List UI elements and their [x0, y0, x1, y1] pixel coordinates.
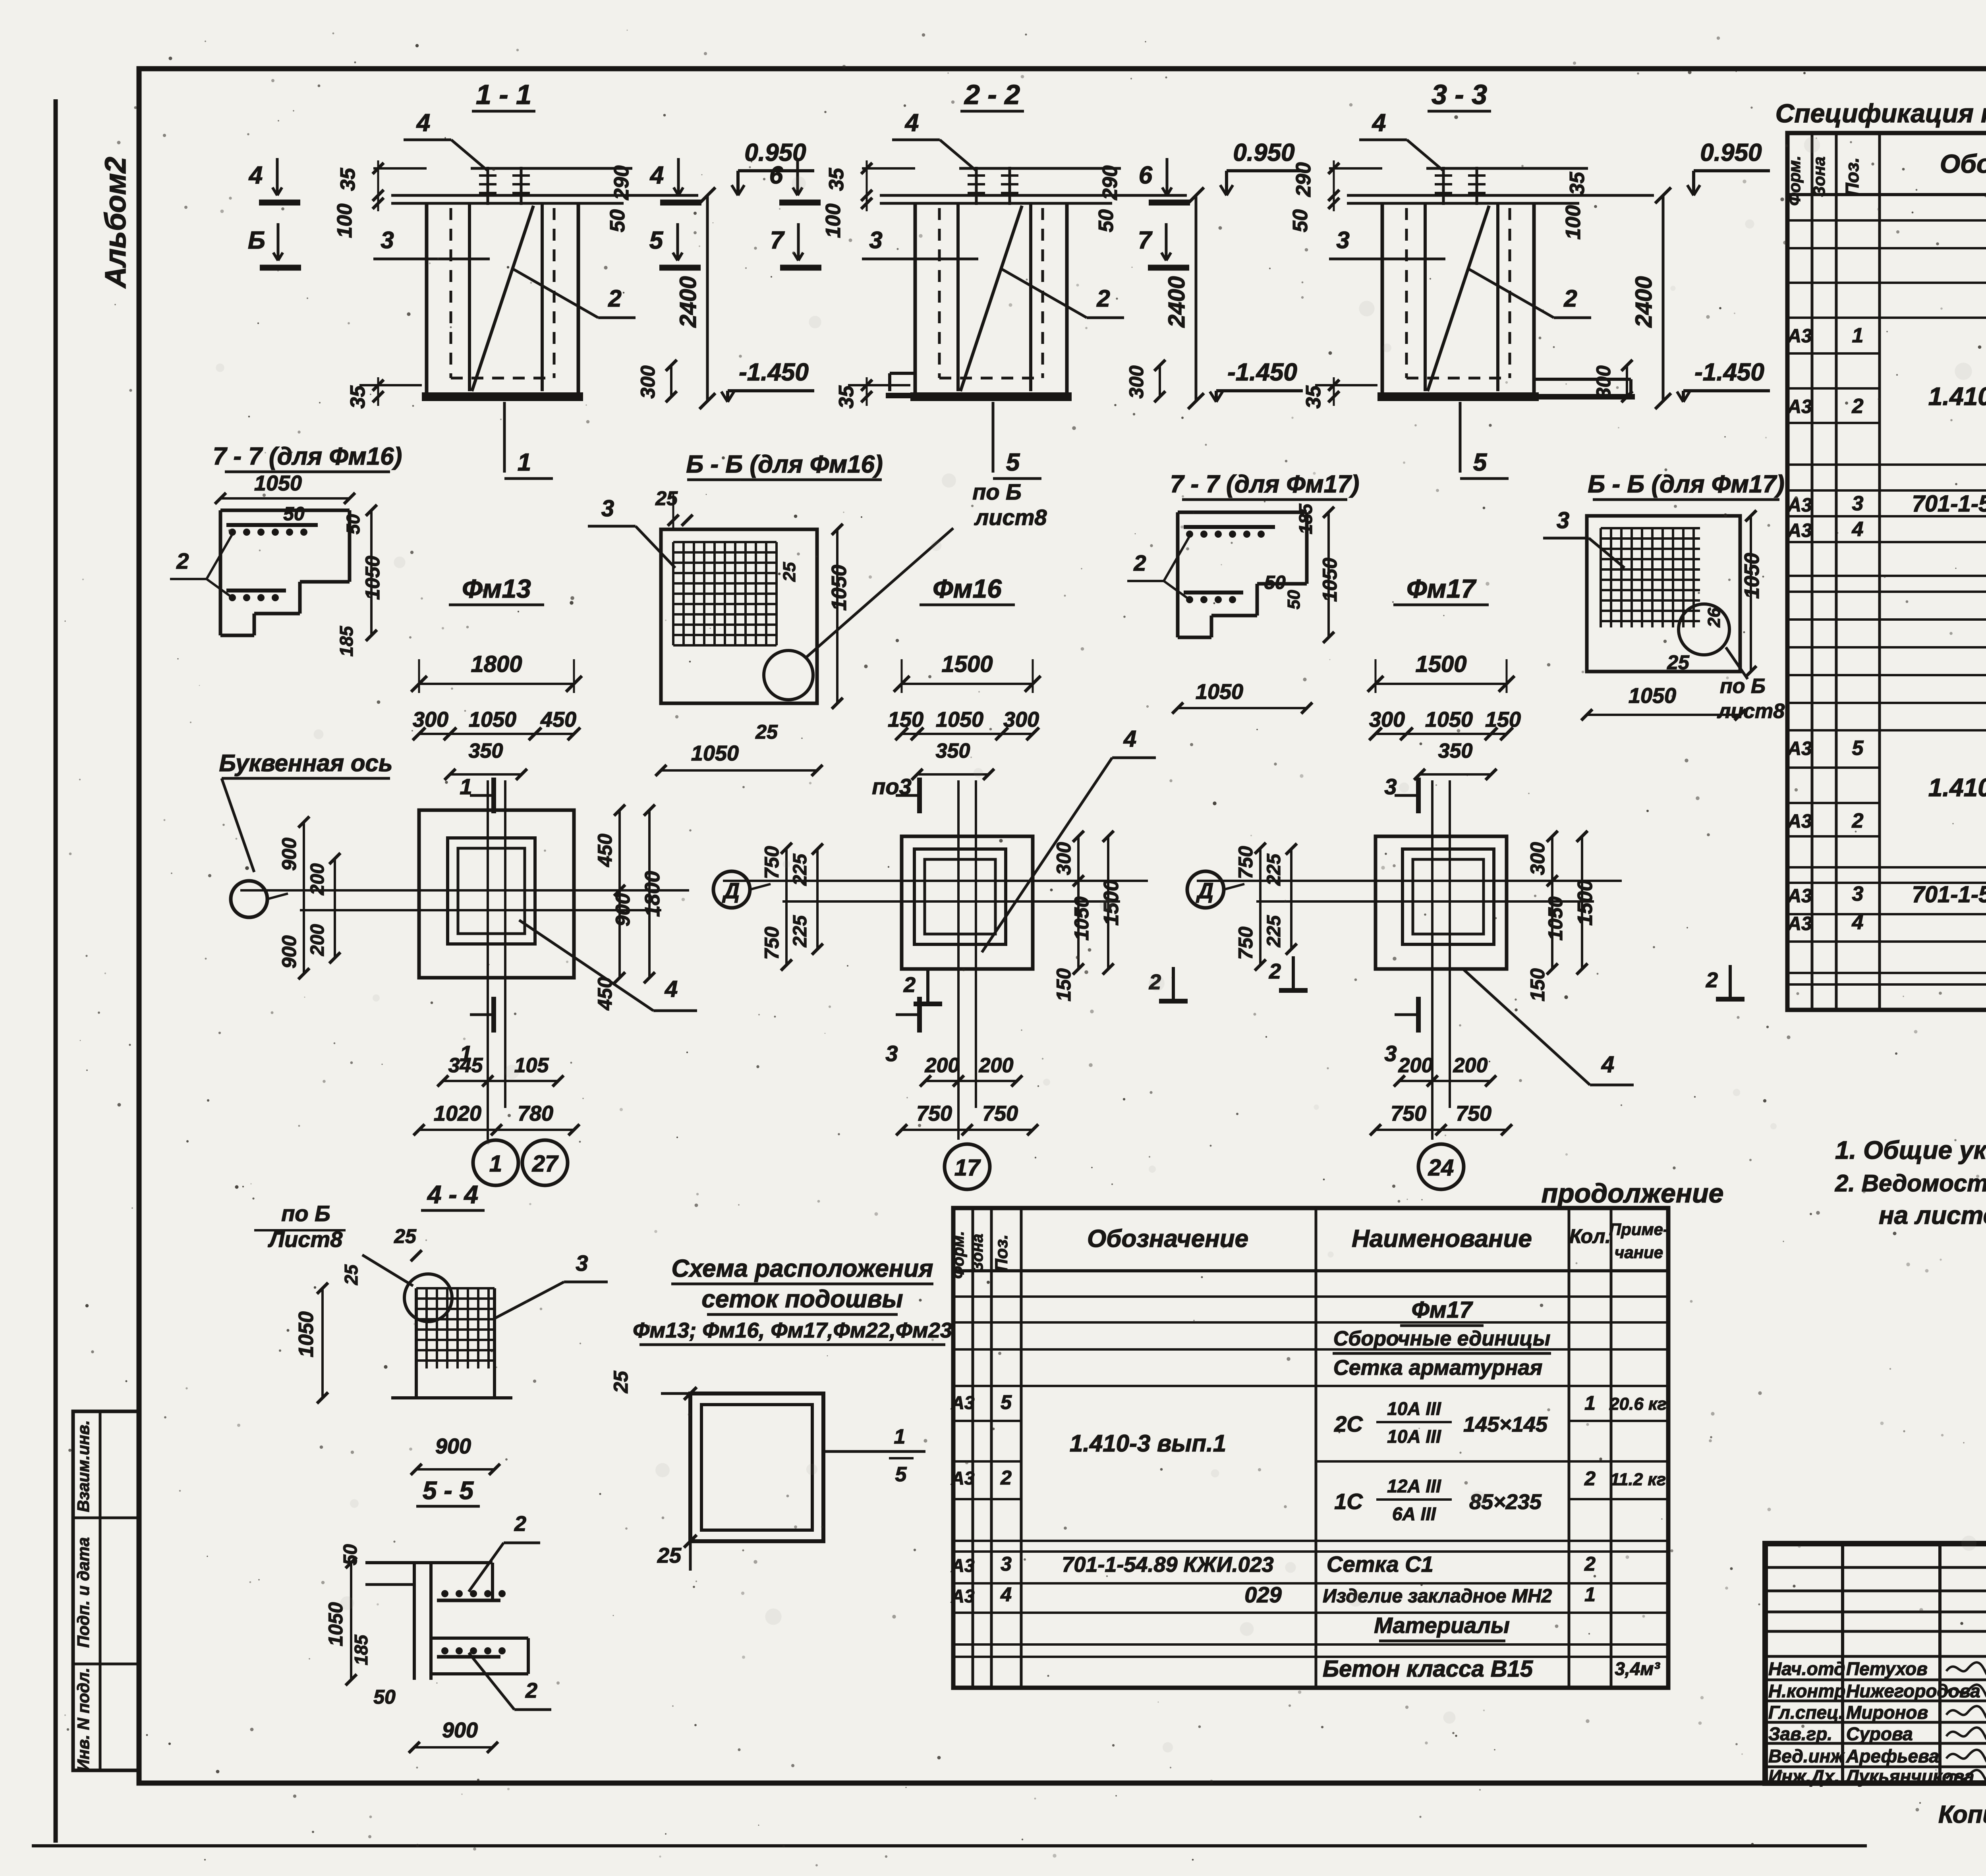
svg-text:7 - 7 (для Фм17): 7 - 7 (для Фм17) [1170, 471, 1359, 498]
svg-text:200: 200 [307, 924, 328, 956]
svg-text:50: 50 [1095, 209, 1118, 232]
svg-text:150: 150 [1053, 968, 1075, 1002]
svg-text:2: 2 [903, 973, 916, 997]
svg-text:Фм13; Фм16, Фм17,Фм22,Фм23: Фм13; Фм16, Фм17,Фм22,Фм23 [633, 1318, 952, 1342]
svg-text:1020: 1020 [434, 1102, 481, 1125]
svg-text:2: 2 [1133, 550, 1146, 575]
svg-text:Обозначение: Обозначение [1087, 1225, 1248, 1253]
svg-text:1800: 1800 [641, 871, 664, 917]
svg-text:Материалы: Материалы [1374, 1613, 1510, 1638]
svg-text:4: 4 [1123, 726, 1136, 752]
svg-text:200: 200 [1453, 1054, 1488, 1077]
svg-text:50: 50 [1284, 590, 1304, 609]
svg-text:Сурова: Сурова [1846, 1724, 1913, 1744]
svg-text:150: 150 [1526, 968, 1549, 1002]
svg-text:сеток подошвы: сеток подошвы [701, 1285, 903, 1313]
svg-text:А3: А3 [1787, 495, 1812, 516]
svg-text:А3: А3 [1787, 326, 1812, 347]
svg-text:Нижегородова: Нижегородова [1846, 1681, 1980, 1701]
svg-text:1С: 1С [1334, 1489, 1363, 1514]
svg-text:300: 300 [1003, 708, 1039, 731]
svg-text:3: 3 [1557, 508, 1569, 533]
svg-text:2400: 2400 [1631, 276, 1657, 328]
svg-text:-1.450: -1.450 [739, 359, 809, 386]
svg-text:4: 4 [649, 162, 664, 189]
svg-text:Взаим.инв.: Взаим.инв. [74, 1420, 93, 1512]
svg-text:1.410-3 вып.1: 1.410-3 вып.1 [1928, 382, 1986, 411]
svg-text:1 - 1: 1 - 1 [476, 79, 531, 110]
svg-text:А3: А3 [1787, 520, 1812, 541]
svg-text:2400: 2400 [675, 276, 701, 328]
svg-text:50: 50 [283, 504, 305, 525]
svg-text:-1.450: -1.450 [1227, 359, 1297, 386]
svg-text:Петухов: Петухов [1846, 1658, 1928, 1679]
svg-text:2С: 2С [1334, 1411, 1363, 1436]
svg-text:290: 290 [1099, 166, 1122, 201]
svg-text:Зона: Зона [1810, 156, 1828, 197]
svg-text:6А III: 6А III [1392, 1504, 1436, 1524]
svg-text:12А III: 12А III [1387, 1476, 1441, 1496]
svg-text:Сетка С1: Сетка С1 [1327, 1552, 1433, 1577]
svg-text:300: 300 [1592, 365, 1615, 399]
svg-text:150: 150 [888, 708, 923, 731]
svg-text:5: 5 [1001, 1391, 1012, 1413]
svg-text:150: 150 [1485, 708, 1521, 731]
svg-text:1500: 1500 [941, 651, 993, 677]
svg-text:25: 25 [610, 1370, 632, 1393]
svg-text:1050: 1050 [469, 708, 516, 731]
svg-text:7: 7 [770, 227, 785, 254]
svg-text:7 - 7 (для Фм16): 7 - 7 (для Фм16) [213, 443, 402, 470]
svg-text:А3: А3 [951, 1555, 975, 1576]
svg-text:Д: Д [1196, 878, 1213, 903]
svg-text:750: 750 [1391, 1102, 1426, 1125]
svg-text:2: 2 [1269, 959, 1281, 983]
svg-text:20.6 кг: 20.6 кг [1609, 1394, 1667, 1414]
svg-text:А3: А3 [951, 1468, 975, 1488]
svg-text:300: 300 [1369, 708, 1405, 731]
svg-text:3: 3 [1852, 492, 1864, 515]
svg-text:290: 290 [1292, 162, 1315, 197]
svg-text:1.410-3 вып.1: 1.410-3 вып.1 [1928, 773, 1986, 802]
svg-text:145×145: 145×145 [1463, 1413, 1548, 1436]
svg-text:Наименование: Наименование [1352, 1225, 1532, 1253]
svg-text:Бетон класса В15: Бетон класса В15 [1323, 1656, 1533, 1682]
svg-text:0.950: 0.950 [1233, 139, 1294, 166]
svg-text:2: 2 [176, 548, 189, 573]
svg-text:Фм16: Фм16 [933, 574, 1002, 603]
svg-text:50: 50 [1289, 209, 1312, 232]
svg-text:3,4м³: 3,4м³ [1615, 1658, 1660, 1679]
svg-text:25: 25 [394, 1225, 417, 1247]
svg-text:Инв. N подл.: Инв. N подл. [74, 1668, 93, 1771]
svg-text:450: 450 [594, 834, 616, 867]
svg-text:Фм13: Фм13 [462, 574, 531, 603]
svg-text:50: 50 [373, 1686, 396, 1708]
svg-text:4: 4 [1601, 1052, 1614, 1077]
svg-text:350: 350 [1438, 739, 1473, 762]
svg-text:Б: Б [248, 227, 265, 254]
svg-text:1050: 1050 [295, 1311, 318, 1357]
svg-text:25: 25 [341, 1264, 361, 1285]
svg-text:200: 200 [925, 1054, 960, 1077]
svg-text:6: 6 [769, 162, 783, 189]
svg-text:5: 5 [649, 227, 664, 254]
svg-text:100: 100 [1562, 205, 1585, 240]
svg-text:750: 750 [1234, 846, 1257, 879]
svg-text:1: 1 [489, 1151, 502, 1177]
svg-text:25: 25 [780, 562, 799, 582]
svg-text:750: 750 [982, 1102, 1018, 1125]
svg-text:2: 2 [1000, 1467, 1012, 1489]
svg-text:2: 2 [525, 1679, 537, 1702]
svg-text:Сборочные единицы: Сборочные единицы [1333, 1327, 1551, 1350]
svg-text:900: 900 [278, 935, 300, 969]
svg-text:Лукьянчикова: Лукьянчикова [1845, 1766, 1974, 1787]
svg-text:0.950: 0.950 [1700, 139, 1762, 166]
svg-text:2400: 2400 [1164, 276, 1190, 328]
svg-text:Спецификация на монолитные фун: Спецификация на монолитные фундаменты Фм… [1775, 98, 1986, 128]
svg-text:1: 1 [894, 1425, 906, 1448]
svg-text:2 - 2: 2 - 2 [964, 79, 1020, 110]
svg-text:300: 300 [637, 365, 659, 399]
svg-text:Фм17: Фм17 [1412, 1297, 1473, 1323]
svg-text:3: 3 [1001, 1553, 1012, 1575]
svg-text:4: 4 [248, 162, 263, 189]
svg-text:Схема расположения: Схема расположения [671, 1255, 933, 1282]
svg-text:1050: 1050 [691, 741, 739, 765]
svg-text:345: 345 [448, 1054, 483, 1077]
svg-text:1: 1 [1584, 1583, 1596, 1606]
svg-text:лист8: лист8 [974, 505, 1047, 530]
svg-text:750: 750 [1234, 926, 1257, 960]
svg-text:1: 1 [1852, 324, 1864, 347]
svg-text:3: 3 [869, 227, 882, 253]
svg-text:350: 350 [936, 739, 970, 762]
svg-text:А3: А3 [1787, 886, 1812, 907]
svg-text:750: 750 [761, 926, 783, 960]
svg-text:35: 35 [835, 385, 858, 409]
svg-text:3: 3 [601, 496, 614, 521]
svg-text:225: 225 [1263, 853, 1285, 886]
svg-text:17: 17 [954, 1155, 981, 1181]
svg-text:А3: А3 [951, 1586, 975, 1606]
svg-text:Подп. и дата: Подп. и дата [74, 1537, 93, 1648]
svg-text:5: 5 [1006, 449, 1020, 476]
svg-text:1: 1 [518, 449, 531, 476]
svg-text:4: 4 [1852, 518, 1864, 541]
svg-text:1050: 1050 [1629, 684, 1676, 708]
svg-text:чание: чание [1615, 1243, 1663, 1262]
svg-text:Фм17: Фм17 [1406, 574, 1477, 603]
svg-text:750: 750 [916, 1102, 952, 1125]
svg-text:на листе 19.: на листе 19. [1879, 1201, 1986, 1229]
svg-text:10А III: 10А III [1387, 1398, 1441, 1419]
svg-text:Кол.: Кол. [1569, 1225, 1611, 1247]
svg-text:5: 5 [1473, 449, 1488, 476]
svg-text:300: 300 [1125, 365, 1148, 399]
svg-text:1050: 1050 [254, 471, 302, 495]
svg-text:185: 185 [1295, 503, 1316, 534]
svg-text:1050: 1050 [1544, 896, 1567, 940]
svg-text:780: 780 [518, 1102, 553, 1125]
svg-text:3: 3 [381, 227, 394, 253]
svg-text:4: 4 [904, 109, 919, 137]
svg-text:Форм.: Форм. [1785, 156, 1804, 206]
svg-text:35: 35 [1566, 172, 1589, 195]
svg-text:3: 3 [1852, 882, 1864, 905]
svg-text:450: 450 [540, 708, 576, 731]
svg-text:1050: 1050 [936, 708, 983, 731]
svg-text:300: 300 [1053, 842, 1075, 875]
svg-text:4 - 4: 4 - 4 [427, 1180, 478, 1209]
svg-text:300: 300 [413, 708, 448, 731]
svg-text:10А III: 10А III [1387, 1426, 1441, 1447]
svg-text:25: 25 [755, 721, 778, 743]
svg-text:900: 900 [612, 893, 634, 926]
svg-text:3: 3 [885, 1041, 898, 1066]
svg-text:1.410-3 вып.1: 1.410-3 вып.1 [1070, 1430, 1226, 1457]
svg-text:1050: 1050 [1425, 708, 1473, 731]
svg-text:900: 900 [442, 1718, 478, 1742]
svg-text:Инж.Дх.: Инж.Дх. [1768, 1766, 1839, 1787]
svg-text:1050: 1050 [828, 565, 851, 611]
svg-text:-1.450: -1.450 [1694, 359, 1764, 386]
svg-text:2: 2 [514, 1512, 526, 1536]
svg-text:1800: 1800 [471, 651, 522, 677]
svg-text:029: 029 [1244, 1582, 1281, 1607]
svg-text:Форм.: Форм. [950, 1231, 967, 1279]
svg-text:лист8: лист8 [1717, 700, 1785, 723]
svg-text:701-1-54.89 КЖИ.023: 701-1-54.89 КЖИ.023 [1912, 882, 1986, 907]
svg-text:701-1-54.89 КЖИ.023: 701-1-54.89 КЖИ.023 [1062, 1553, 1273, 1577]
svg-text:Сетка арматурная: Сетка арматурная [1333, 1356, 1543, 1380]
svg-text:2: 2 [1852, 809, 1864, 832]
svg-text:225: 225 [790, 853, 811, 886]
svg-text:4: 4 [1852, 911, 1864, 934]
svg-text:100: 100 [822, 204, 845, 238]
svg-text:25: 25 [655, 487, 678, 510]
svg-text:А3: А3 [1787, 396, 1812, 417]
svg-text:750: 750 [1456, 1102, 1491, 1125]
svg-text:2: 2 [1584, 1553, 1596, 1575]
svg-text:701-1-54.89 КЖИ.023: 701-1-54.89 КЖИ.023 [1912, 491, 1986, 517]
svg-text:3: 3 [1384, 1041, 1397, 1066]
svg-text:2: 2 [1584, 1467, 1596, 1490]
svg-text:5: 5 [1852, 737, 1864, 760]
svg-text:200: 200 [307, 863, 328, 896]
svg-text:по Б: по Б [972, 479, 1022, 504]
svg-text:200: 200 [979, 1054, 1014, 1077]
svg-text:Гл.спец.: Гл.спец. [1768, 1702, 1844, 1723]
svg-text:Б - Б (для Фм17): Б - Б (для Фм17) [1588, 471, 1784, 498]
svg-text:6: 6 [1139, 162, 1153, 189]
svg-text:Вед.инж: Вед.инж [1768, 1746, 1845, 1766]
svg-text:по Б: по Б [281, 1201, 330, 1226]
svg-text:900: 900 [278, 838, 300, 871]
svg-text:4: 4 [416, 109, 430, 137]
svg-text:Обозначение: Обозначение [1940, 149, 1986, 178]
svg-text:105: 105 [514, 1054, 549, 1077]
svg-text:Арефьева: Арефьева [1846, 1746, 1939, 1766]
svg-text:продолжение: продолжение [1542, 1178, 1724, 1208]
svg-text:24: 24 [1428, 1155, 1454, 1181]
svg-text:35: 35 [346, 385, 369, 409]
svg-text:225: 225 [790, 915, 811, 948]
svg-text:2: 2 [1563, 285, 1577, 312]
svg-text:1: 1 [1584, 1392, 1596, 1414]
svg-text:11.2 кг: 11.2 кг [1610, 1470, 1666, 1489]
svg-text:350: 350 [469, 739, 503, 762]
svg-text:3: 3 [1336, 227, 1349, 253]
svg-text:Миронов: Миронов [1846, 1702, 1928, 1723]
svg-text:27: 27 [532, 1151, 559, 1177]
svg-text:35: 35 [825, 168, 848, 191]
svg-text:Поз.: Поз. [1842, 157, 1862, 196]
svg-text:Зона: Зона [969, 1234, 986, 1272]
svg-text:35: 35 [1302, 385, 1325, 409]
svg-text:А3: А3 [1787, 811, 1812, 832]
svg-text:Приме-: Приме- [1609, 1220, 1669, 1239]
svg-text:3: 3 [576, 1251, 588, 1276]
svg-text:А3: А3 [1787, 738, 1812, 759]
svg-text:Д: Д [722, 878, 740, 903]
svg-text:2. Ведомость расхода стали на: 2. Ведомость расхода стали на фундаменты… [1835, 1170, 1986, 1197]
svg-text:290: 290 [610, 166, 633, 201]
svg-text:1050: 1050 [1196, 680, 1243, 704]
svg-text:5: 5 [895, 1463, 907, 1486]
svg-text:Копировал:: Копировал: [1938, 1801, 1986, 1828]
svg-text:50: 50 [606, 209, 629, 232]
svg-text:900: 900 [435, 1434, 471, 1458]
svg-text:4: 4 [1000, 1583, 1012, 1606]
svg-text:35: 35 [336, 168, 359, 191]
svg-text:7: 7 [1138, 227, 1153, 254]
svg-text:Поз.: Поз. [992, 1234, 1011, 1271]
svg-text:50: 50 [1264, 572, 1286, 593]
svg-text:1500: 1500 [1574, 880, 1597, 926]
svg-text:750: 750 [761, 846, 783, 879]
svg-text:50: 50 [343, 514, 363, 535]
svg-text:25: 25 [1667, 651, 1690, 674]
svg-text:1. Общие указания на листе 4.: 1. Общие указания на листе 4. [1835, 1136, 1986, 1164]
svg-text:185: 185 [336, 625, 357, 656]
svg-text:Альбом2: Альбом2 [99, 157, 132, 289]
svg-text:185: 185 [351, 1634, 371, 1665]
svg-text:25: 25 [657, 1544, 682, 1567]
svg-text:Нач.отд: Нач.отд [1768, 1658, 1845, 1679]
svg-text:4: 4 [665, 976, 678, 1002]
svg-text:А3: А3 [1787, 913, 1812, 934]
svg-text:2: 2 [608, 285, 621, 312]
svg-text:100: 100 [333, 204, 356, 238]
svg-text:200: 200 [1398, 1054, 1433, 1077]
svg-text:2: 2 [1706, 968, 1718, 992]
svg-text:Б - Б (для Фм16): Б - Б (для Фм16) [686, 451, 883, 478]
svg-text:1500: 1500 [1415, 651, 1466, 677]
svg-text:Н.контр: Н.контр [1768, 1681, 1845, 1701]
svg-text:А3: А3 [951, 1392, 975, 1413]
svg-text:225: 225 [1263, 915, 1285, 948]
svg-text:5 - 5: 5 - 5 [423, 1476, 474, 1505]
svg-text:Зав.гр.: Зав.гр. [1768, 1724, 1832, 1744]
svg-text:3 - 3: 3 - 3 [1432, 79, 1487, 110]
svg-text:2: 2 [1852, 395, 1864, 418]
svg-text:Буквенная ось: Буквенная ось [219, 750, 392, 776]
svg-text:4: 4 [1372, 109, 1386, 137]
svg-text:2: 2 [1096, 285, 1110, 312]
svg-text:1050: 1050 [1070, 896, 1093, 940]
svg-text:300: 300 [1526, 842, 1549, 875]
